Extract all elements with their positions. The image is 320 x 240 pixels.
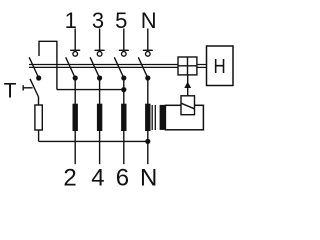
svg-text:6: 6: [116, 165, 129, 192]
junction dot N test wire: [145, 139, 150, 144]
CT secondary winding bar: [160, 105, 166, 130]
svg-text:N: N: [141, 8, 157, 33]
trip relay box: [181, 96, 195, 115]
actuator junction dot: [36, 75, 41, 80]
wire: terminal 3 stub: [99, 29, 101, 50]
fixed contact circle pole N: [146, 52, 151, 57]
wire pole 3 to CT: [123, 78, 125, 104]
test button actuator link: [23, 87, 32, 89]
test button actuator bar: [22, 85, 24, 90]
test tap junction dot pole 3: [121, 87, 126, 92]
wire pole 2 to terminal 4: [99, 131, 101, 164]
fixed contact circle pole 2: [97, 52, 102, 57]
actuator switch blade: [29, 57, 39, 78]
CT core lines: [152, 105, 155, 130]
test resistor: [35, 105, 42, 130]
wire pole 1 to terminal 2: [74, 131, 76, 164]
CT primary winding pole 3: [121, 104, 126, 131]
svg-text:N: N: [140, 165, 157, 192]
test return wire to N: [39, 140, 148, 142]
actuator top bracket: [39, 41, 57, 89]
junction dot pole 3: [121, 75, 126, 80]
wire resistor down: [38, 130, 40, 141]
wire: terminal N stub: [147, 29, 149, 50]
junction dot pole 1: [73, 75, 78, 80]
svg-text:T: T: [4, 80, 17, 103]
wire pole 1 to CT: [74, 78, 76, 104]
switch blade pole 2: [90, 57, 100, 78]
latch box cross horizontal: [178, 65, 197, 67]
trip relay diagonal: [181, 103, 195, 109]
handle box H: [207, 46, 234, 86]
CT primary winding pole 1: [73, 104, 78, 131]
fixed contact tick pole 2: [95, 49, 105, 51]
wire pole 2 to CT: [99, 78, 101, 104]
svg-text:4: 4: [91, 165, 104, 192]
wire pole N to terminal N: [147, 131, 149, 164]
svg-text:2: 2: [63, 165, 76, 192]
wire test button to resistor: [38, 97, 40, 106]
junction dot pole 2: [97, 75, 102, 80]
fixed contact circle pole 1: [73, 52, 78, 57]
fixed contact tick pole N: [143, 49, 153, 51]
wire pole 3 to terminal 6: [123, 131, 125, 164]
latch box cross vertical: [187, 57, 189, 75]
switch blade pole N: [138, 57, 148, 78]
fixed contact tick pole 1: [70, 49, 80, 51]
svg-text:H: H: [214, 56, 226, 78]
junction dot pole N: [145, 75, 150, 80]
fixed contact circle pole 3: [122, 52, 127, 57]
svg-text:3: 3: [92, 8, 104, 33]
fixed contact tick pole 3: [119, 49, 129, 51]
svg-text:5: 5: [115, 8, 127, 33]
test tap wire to pole 3: [57, 89, 124, 91]
linkage to H box (double line): [197, 65, 207, 68]
switch blade pole 1: [66, 57, 76, 78]
switch blade pole 3: [114, 57, 124, 78]
relay housing box: [165, 105, 203, 130]
test button blade: [30, 79, 38, 97]
CT primary winding pole N: [145, 104, 150, 131]
CT primary winding pole 2: [97, 104, 102, 131]
trip arrow head: [184, 82, 191, 89]
mechanical linkage bar (double line): [29, 65, 178, 68]
wire pole N to CT: [147, 78, 149, 104]
latch box: [178, 57, 197, 75]
wire: terminal 5 stub: [123, 29, 125, 50]
wire: terminal 1 stub: [74, 29, 76, 50]
trip arrow line: [187, 75, 189, 96]
